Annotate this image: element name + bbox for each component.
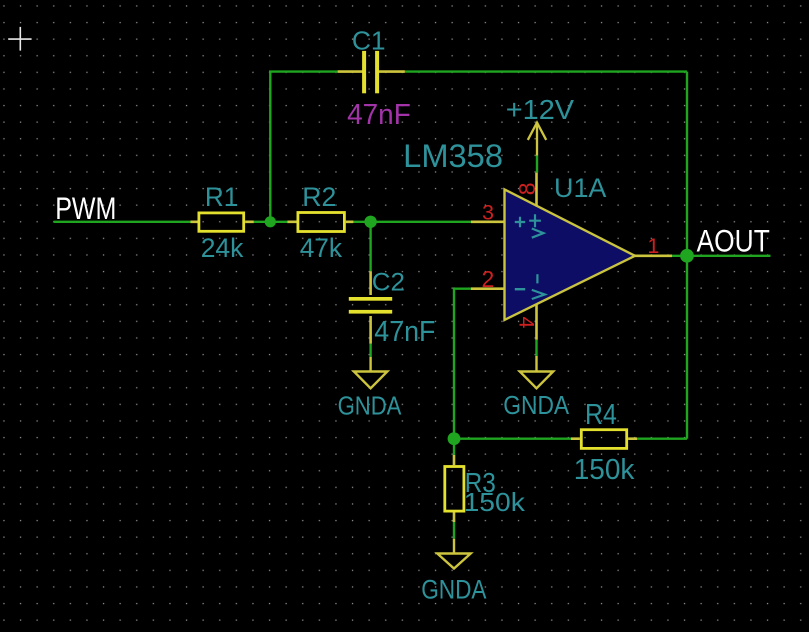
svg-text:150k: 150k (464, 489, 525, 517)
svg-text:24k: 24k (201, 233, 244, 263)
op-amp U1 body (505, 189, 636, 320)
svg-text:8: 8 (514, 182, 540, 195)
resistor R2 (287, 221, 353, 224)
op-amp pin 3 (471, 221, 505, 224)
svg-text:R4: R4 (585, 399, 617, 431)
svg-text:+12V: +12V (506, 94, 575, 125)
wire R1 to R2 (254, 221, 287, 223)
svg-text:47nF: 47nF (374, 316, 435, 348)
resistor R3 (453, 455, 456, 522)
capacitor C1 (338, 70, 405, 73)
svg-text:R1: R1 (205, 182, 238, 212)
wire PWM to R1 (54, 221, 191, 223)
svg-text:GNDA: GNDA (503, 392, 569, 420)
junction node B (364, 216, 376, 228)
cursor crosshair (8, 27, 31, 51)
wire C2 to gnd (369, 344, 371, 357)
capacitor C2 (369, 271, 372, 343)
op-amp plus marker (515, 217, 525, 227)
wire C1 right to top corner (405, 70, 687, 72)
wire +12V to pin8 (536, 156, 538, 173)
junction node D (448, 432, 461, 445)
svg-text:U1A: U1A (554, 173, 607, 203)
wire node D to R4 (454, 438, 571, 440)
op-amp V+ marker (529, 214, 543, 238)
junction node AOUT (680, 249, 694, 263)
wire R3 to gnd (453, 519, 455, 538)
svg-text:GNDA: GNDA (421, 575, 486, 605)
wire pin2 stub (454, 288, 471, 290)
svg-text:C1: C1 (352, 27, 386, 55)
wire node A up to C1 (269, 72, 271, 222)
wire AOUT (672, 255, 771, 257)
resistor R4 (571, 437, 637, 440)
op-amp V- marker (532, 274, 545, 299)
svg-text:47nF: 47nF (347, 99, 411, 131)
op-amp minus marker (515, 288, 525, 290)
svg-text:150k: 150k (574, 454, 635, 486)
svg-text:PWM: PWM (55, 191, 116, 226)
wire right vertical (686, 72, 688, 439)
svg-text:AOUT: AOUT (697, 223, 770, 258)
wire R4 to right vertical (637, 438, 687, 440)
svg-text:R2: R2 (302, 182, 336, 212)
svg-text:GNDA: GNDA (338, 393, 402, 421)
svg-text:3: 3 (482, 199, 494, 224)
svg-text:4: 4 (515, 317, 539, 329)
op-amp pin 4 (535, 305, 538, 340)
ground GNDA under R3 (437, 539, 470, 569)
wire node D to R3 (453, 439, 455, 455)
op-amp pin 2 (471, 287, 505, 290)
op-amp pin 1 (635, 255, 672, 258)
resistor R1 (191, 221, 254, 224)
ground GNDA under pin4 (520, 356, 553, 388)
wire top to C1 left (269, 70, 338, 72)
junction node A (265, 216, 276, 227)
op-amp pin 8 (535, 173, 538, 207)
wire pin4 to gnd (535, 340, 537, 356)
svg-text:C2: C2 (372, 268, 405, 296)
wire R2 to pin3 (353, 221, 471, 223)
wire pin2 vertical (453, 287, 455, 438)
power +12V (528, 122, 546, 155)
svg-text:47k: 47k (300, 233, 343, 263)
svg-text:LM358: LM358 (403, 138, 503, 174)
svg-text:1: 1 (647, 233, 659, 258)
wire node B down to C2 (369, 222, 371, 271)
svg-text:2: 2 (482, 266, 495, 292)
ground GNDA under C2 (354, 357, 387, 388)
